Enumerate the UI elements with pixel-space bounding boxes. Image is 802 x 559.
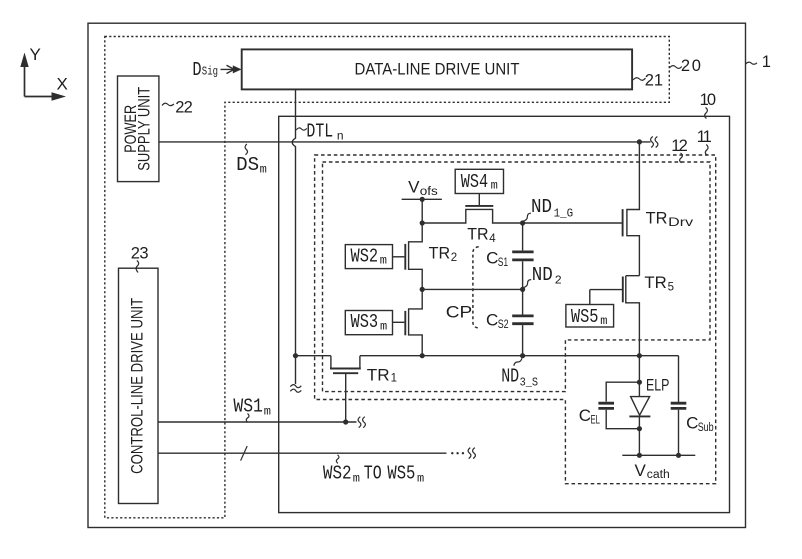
svg-text:22: 22 (175, 99, 193, 117)
label 1 (746, 53, 771, 71)
svg-text:ND: ND (501, 365, 519, 387)
D_Sig input label (192, 59, 218, 81)
svg-text:m: m (380, 320, 387, 334)
svg-text:TR: TR (429, 243, 451, 262)
transistor TR2 (393, 223, 458, 289)
label WS2_m TO WS5_m (323, 455, 424, 486)
svg-text:n: n (337, 130, 344, 144)
dashed drive-circuit box 12 (323, 162, 711, 392)
svg-text:m: m (417, 471, 424, 485)
svg-text:DS: DS (236, 154, 259, 176)
Vofs terminal bar (402, 198, 442, 200)
capacitor C_EL (579, 382, 640, 429)
svg-text:CP: CP (446, 302, 472, 321)
break squiggle on bus (468, 448, 475, 459)
node dot ELP anode (637, 380, 642, 385)
wire DS_m power line with hop (159, 141, 651, 143)
svg-text:ND: ND (531, 196, 552, 218)
svg-text:Sub: Sub (698, 422, 714, 434)
svg-text:V: V (635, 461, 647, 480)
node dot ND2 (520, 287, 525, 292)
outer display device frame (88, 23, 746, 527)
node dot left end of gate row (420, 220, 425, 225)
svg-text:S1: S1 (498, 257, 509, 269)
transistor TR3 (393, 289, 423, 355)
svg-text:D: D (192, 59, 201, 81)
label WS1_m (233, 396, 271, 423)
svg-text:X: X (57, 75, 68, 94)
svg-text:2: 2 (555, 273, 562, 287)
diode ELP (629, 397, 650, 456)
svg-text:V: V (408, 178, 420, 197)
svg-text:Sig: Sig (202, 65, 218, 79)
break squiggle on DS line (651, 137, 658, 148)
svg-text:C: C (579, 406, 591, 425)
node dot DS to TRDrv drain (637, 139, 642, 144)
label V_cath (635, 461, 670, 481)
slash tick on bus (241, 446, 248, 461)
label 21 (633, 72, 663, 90)
svg-text:12: 12 (671, 137, 688, 155)
capacitor CS2 (486, 289, 534, 355)
capacitor C_Sub (671, 356, 714, 456)
label DS_m (236, 144, 267, 177)
svg-text:2: 2 (451, 252, 457, 264)
node dot CSub to Vcath (676, 453, 681, 458)
svg-text:10: 10 (700, 91, 716, 109)
XY axis (20, 45, 68, 101)
svg-text:m: m (353, 471, 360, 485)
transistor TR5 (590, 273, 674, 356)
label 10 (700, 91, 716, 119)
node dot left rail on ND3_S (420, 353, 425, 358)
svg-text:21: 21 (645, 72, 663, 90)
node dot on Vofs bar (420, 197, 425, 202)
node dot TR1 gate on WS1 (343, 419, 348, 424)
wire WS1_m control line (158, 421, 357, 423)
svg-text:m: m (491, 179, 498, 193)
wire ND3_S bottom rail (296, 355, 679, 357)
wire ELP anode column (638, 356, 640, 397)
power supply unit box 22 (118, 76, 159, 182)
WS4_m box (455, 169, 503, 193)
svg-text:WS3: WS3 (351, 311, 379, 333)
label ND3_S (501, 358, 538, 389)
svg-text:m: m (380, 254, 387, 268)
control-line drive unit box 23 (119, 268, 159, 503)
svg-text:m: m (260, 163, 267, 177)
svg-text:EL: EL (591, 414, 601, 426)
label ND2 (523, 264, 562, 287)
svg-text:SUPPLY UNIT: SUPPLY UNIT (134, 87, 153, 171)
parasitic capacitance CP dashed bracket (446, 247, 479, 328)
wire ND1_G gate row with TR4 bridge (422, 209, 622, 223)
svg-text:1: 1 (762, 53, 771, 71)
svg-text:4: 4 (489, 233, 496, 245)
D_Sig arrow (221, 65, 242, 73)
node dot TR5 source on rail (637, 353, 642, 358)
svg-text:C: C (686, 414, 698, 433)
wire WS2-WS5 control bus (158, 452, 464, 454)
svg-text:WS5: WS5 (571, 306, 599, 328)
svg-text:ofs: ofs (420, 186, 438, 198)
svg-text:TR: TR (467, 225, 488, 244)
transistor TR1 (330, 356, 397, 422)
node dot DTL-rail junction (293, 353, 298, 358)
transistor TRDrv (623, 142, 694, 276)
node dot ND3_S (520, 353, 525, 358)
label V_ofs (408, 178, 438, 199)
break squiggle on WS1 line (358, 417, 365, 428)
transistor TR4 (465, 194, 496, 246)
svg-text:S2: S2 (498, 319, 509, 331)
WS3_m box (345, 311, 392, 335)
svg-text:C: C (486, 310, 498, 329)
svg-text:23: 23 (131, 245, 149, 263)
label 23 (131, 245, 149, 273)
svg-text:m: m (264, 404, 271, 418)
svg-text:5: 5 (668, 282, 674, 294)
label DTL_n (296, 121, 344, 144)
data-line drive unit box 21 (242, 49, 632, 89)
svg-text:11: 11 (697, 128, 712, 146)
wire ND2 row (422, 288, 522, 290)
svg-text:TR: TR (367, 365, 390, 384)
break squiggle on DTL line (290, 385, 301, 393)
svg-text:1: 1 (391, 372, 397, 384)
svg-text:TR: TR (646, 209, 668, 228)
svg-text:TR: TR (644, 273, 666, 292)
WS2_m box (345, 245, 392, 269)
label 22 (162, 99, 193, 117)
svg-text:WS4: WS4 (461, 171, 488, 193)
svg-text:Drv: Drv (668, 217, 693, 229)
wire DTL_n vertical data line (292, 89, 295, 384)
svg-text:TO: TO (364, 463, 382, 485)
node dot ND1_G (520, 220, 525, 225)
svg-text:DTL: DTL (306, 121, 333, 143)
node dot diode to Vcath (637, 453, 642, 458)
svg-text:3_S: 3_S (520, 376, 539, 390)
svg-text:1_G: 1_G (554, 207, 574, 221)
svg-text:CONTROL-LINE DRIVE UNIT: CONTROL-LINE DRIVE UNIT (128, 298, 147, 474)
svg-text:DATA-LINE DRIVE UNIT: DATA-LINE DRIVE UNIT (355, 59, 520, 78)
svg-text:WS2: WS2 (323, 463, 352, 485)
svg-text:cath: cath (647, 469, 670, 481)
label ND1_G (523, 196, 573, 221)
dashed pixel box 11 (315, 155, 716, 484)
svg-text:m: m (600, 314, 607, 328)
svg-text:20: 20 (681, 57, 701, 75)
label 20 (670, 57, 701, 75)
label 11 (697, 128, 712, 155)
capacitor CS1 (486, 223, 533, 289)
svg-text:ND: ND (532, 264, 553, 286)
WS5_m box (566, 305, 614, 328)
node dot ND2 left (420, 287, 425, 292)
label 12 (671, 137, 688, 163)
node dot ELP cathode (637, 426, 642, 431)
wire Vofs stub down (421, 199, 423, 223)
svg-text:ELP: ELP (646, 376, 669, 395)
svg-text:C: C (486, 248, 498, 267)
svg-text:Y: Y (30, 45, 41, 64)
dashed region 20 (drive-circuit L-shape) (105, 37, 670, 518)
Vcath terminal bar (622, 454, 695, 456)
svg-text:WS2: WS2 (351, 246, 379, 268)
svg-text:WS5: WS5 (387, 463, 415, 485)
solid pixel-array box 10 (279, 116, 730, 512)
